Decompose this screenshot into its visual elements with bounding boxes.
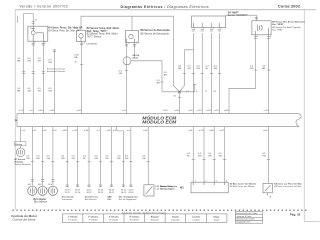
svg-text:a-58: a-58 [62, 130, 67, 132]
svg-text:Denominação dos Cabos: Denominação dos Cabos [236, 212, 257, 215]
pin labels B4 MAP [194, 28, 222, 30]
svg-text:Press.: Press. [30, 28, 36, 30]
label on a-46 wire [38, 58, 42, 63]
svg-text:BR: BR [17, 60, 20, 62]
oxygen sensor box [144, 185, 154, 196]
label at shield circle [132, 54, 140, 60]
wire: shield drain from circle to ground bus [131, 61, 162, 92]
mid connector ticks band [22, 65, 270, 74]
svg-text:BR: BR [164, 75, 167, 77]
label B1 rotation sensor [15, 159, 32, 166]
svg-text:GR: GR [142, 158, 146, 160]
wire: ECM a-3 page link [130, 127, 132, 187]
svg-text:GR: GR [119, 73, 123, 75]
wire: MAP pin1 jog lead into splice [180, 50, 185, 92]
svg-text:Blindag.: Blindag. [15, 144, 23, 146]
header title center: Diagramas Elétricos / Diagramas Eléctricos [121, 5, 210, 9]
dotted bottom frame line [13, 210, 307, 211]
svg-text:4º Cilindro: 4º Cilindro [130, 218, 140, 221]
svg-text:Denominación Cables: Denominación Cables [236, 219, 255, 221]
pin labels at M3 box [195, 180, 228, 182]
ticks on MAP wires [183, 72, 186, 74]
svg-text:a-44: a-44 [263, 130, 268, 132]
svg-text:Rotación: Rotación [151, 218, 160, 221]
labels on MAP wires [178, 65, 182, 70]
label B2 [74, 27, 119, 38]
wire: K4 supply loop (up from K4, left, down to ECM a-17) [24, 14, 34, 114]
svg-text:GR: GR [38, 60, 42, 62]
svg-text:a-46: a-46 [38, 110, 43, 112]
pin label under S box [269, 197, 272, 199]
svg-text:Rotação: Rotação [151, 215, 160, 218]
label on a-45 wire [48, 59, 52, 64]
svg-text:a-45: a-45 [49, 110, 54, 112]
connector X on B6 lead 1 [125, 44, 128, 46]
wire: ECM a-28 page link [110, 127, 112, 187]
sensor B1 rotation [16, 146, 25, 157]
label B4 [228, 12, 248, 18]
captions under page links [62, 195, 139, 200]
svg-text:S2 Bico Contr. Vel. Marcha: S2 Bico Contr. Vel. Marcha [230, 182, 257, 185]
tick on B6 wire [125, 70, 128, 72]
svg-text:a-42: a-42 [77, 110, 82, 112]
svg-text:40-15: 40-15 [121, 192, 127, 194]
svg-text:a-19: a-19 [214, 110, 219, 112]
svg-text:WS: WS [48, 62, 52, 64]
wire: ECM a-75 page link [77, 127, 79, 187]
pin labels below ECM banner [22, 130, 269, 132]
wire: K4 pin 30 to ECM a-46 [42, 41, 44, 114]
svg-text:GN: GN [105, 158, 109, 160]
pin labels B6 [128, 43, 138, 45]
tick on a-4 wire [32, 72, 35, 74]
svg-text:a-47: a-47 [219, 130, 224, 132]
svg-text:Pág. 33: Pág. 33 [290, 212, 301, 216]
svg-text:WS: WS [48, 91, 52, 93]
tick on drain wire [160, 82, 196, 97]
svg-text:WS: WS [61, 158, 65, 160]
tick on a-46 wire [42, 72, 45, 74]
injector Y3 [48, 186, 57, 195]
header rule [15, 9, 316, 11]
footer info box [235, 212, 262, 224]
svg-text:a-35: a-35 [197, 110, 202, 112]
svg-text:Sensores Diversos: Sensores Diversos [47, 70, 66, 73]
connector X on B5 pin 2 [267, 37, 270, 39]
footer: Sinais dos Circuitos header [122, 212, 167, 215]
connector ticks on wires below components [32, 29, 271, 51]
connector X on B2 wire [80, 43, 83, 45]
svg-text:Sensor “MAP/MAT”: Sensor “MAP/MAT” [228, 14, 248, 17]
connector X on MAP pin 3 [210, 29, 213, 31]
connector ticks above injectors [31, 180, 55, 182]
svg-text:34-12: 34-12 [86, 192, 92, 194]
svg-text:X30 Inter. Luz Freio Vel. Max.: X30 Inter. Luz Freio Vel. Max. [274, 182, 303, 185]
shield circle on knock sensor lead [123, 57, 131, 65]
label block Sensores Diversos [47, 67, 66, 73]
svg-text:BR: BR [74, 57, 77, 59]
svg-text:WS: WS [208, 156, 212, 158]
mid ticks below banner [31, 159, 270, 161]
connector on K4 supply wire [32, 22, 35, 24]
switch S box [263, 183, 272, 195]
wire: B4 MAP pin 1 branch [192, 50, 194, 114]
svg-text:WS: WS [196, 68, 200, 70]
wire: ECM a-66 to idle actuator [213, 127, 215, 183]
svg-text:B6 Sensor de Detonación: B6 Sensor de Detonación [141, 32, 170, 35]
connector X on B6 lead 2 [133, 44, 136, 46]
svg-text:B5 Sensor Rot. Árbol Cigüeñal: B5 Sensor Rot. Árbol Cigüeñal [272, 26, 301, 29]
page link reference labels [65, 190, 135, 194]
sensor B5 crankshaft [252, 21, 271, 35]
label M3 [180, 182, 257, 189]
wire: B4 MAP pin 2 to ECM a-35 [201, 33, 203, 114]
wire: shield drop to B6 box top [131, 16, 133, 30]
sensor B6 knock [126, 30, 139, 42]
wire: B4 MAP pin 1 jog [184, 33, 193, 50]
wire: ECM a-7 page link [100, 127, 102, 187]
svg-text:a-75: a-75 [73, 130, 78, 132]
wire: B4 MAP pin 4 to ECM a-19 [218, 33, 220, 114]
svg-text:ABS: ABS [106, 198, 112, 201]
footer signal table [62, 214, 227, 223]
svg-text:a-31: a-31 [264, 110, 269, 112]
svg-text:Corsa 2002: Corsa 2002 [278, 4, 301, 9]
svg-text:Comprim. 0.5 mm: Comprim. 0.5 mm [236, 215, 251, 218]
page link terminators [66, 185, 133, 187]
label left of M3 box [161, 185, 174, 191]
svg-text:Diagramas Elétricos / Diagrama: Diagramas Elétricos / Diagramas Eléctric… [121, 5, 210, 9]
pin 15 on K4 supply [35, 20, 38, 22]
svg-text:1º Cilindro: 1º Cilindro [68, 215, 79, 218]
label injectors [28, 184, 53, 203]
svg-text:“NTC” Sensor: “NTC” Sensor [87, 36, 102, 39]
sensor B2 temperature [77, 30, 86, 41]
svg-text:K4 Sens. Pres. Dir. Hidr. AP: K4 Sens. Pres. Dir. Hidr. AP [49, 30, 80, 33]
wire: ECM a-58 page link [66, 127, 68, 187]
wire: K4 pin 87 to ECM a-4 [32, 41, 34, 114]
svg-text:BR: BR [17, 91, 20, 93]
injector Y2 [38, 186, 47, 195]
label oxygen sensor [156, 185, 178, 191]
wire: ECM a-47 to idle actuator [224, 127, 226, 183]
wire: ECM a-2 jog page link [117, 127, 124, 187]
labels on B5 wires [250, 65, 254, 70]
svg-text:GN: GN [219, 156, 223, 158]
svg-text:Sensores Diversos: Sensores Diversos [47, 67, 66, 70]
svg-text:MASA: MASA [132, 57, 138, 60]
wire: ECM a-61 to idle actuator [192, 127, 194, 183]
label on B2 wire lower [74, 61, 77, 63]
label K4 [30, 27, 83, 33]
wire: ECM a-29 to injector 2 [42, 127, 44, 186]
wire: ECM a-44 to switch S [267, 127, 269, 184]
svg-text:Rot. “RPM”: Rot. “RPM” [272, 23, 283, 26]
svg-text:GN: GN [47, 158, 51, 160]
svg-text:Transmisión: Transmisión [62, 199, 74, 201]
label on splice output [174, 96, 177, 98]
frame bottom-right corner line [304, 220, 319, 222]
svg-text:a-20: a-20 [188, 110, 193, 112]
svg-text:38-11: 38-11 [109, 192, 115, 194]
svg-text:a-30: a-30 [163, 110, 168, 112]
connector X on K4 pin 30 wire [42, 43, 45, 45]
svg-text:BR: BR [157, 83, 160, 85]
svg-text:X30 Inter. Luz Freno Vel. Max.: X30 Inter. Luz Freno Vel. Max. [273, 185, 302, 188]
connector X on K4 pin 87 wire [32, 43, 35, 45]
wire: shield box lead into splice [173, 16, 179, 92]
connector on B5 top wire [255, 17, 258, 19]
wire: ground bus stub right [194, 84, 196, 92]
svg-text:GR: GR [72, 158, 76, 160]
wire: ECM a-26 page link [88, 127, 90, 187]
svg-text:a-28: a-28 [106, 130, 111, 132]
svg-text:42-16: 42-16 [128, 192, 134, 194]
svg-text:31-12: 31-12 [65, 192, 71, 194]
svg-text:a-27: a-27 [32, 130, 37, 132]
svg-text:M3: M3 [180, 186, 184, 189]
header title left: Versão / Versión 3007/02 [20, 5, 69, 9]
svg-text:Lambda: Lambda [192, 216, 201, 218]
svg-text:Lambda: Lambda [192, 219, 200, 221]
svg-text:Son Diversos: Son Diversos [85, 199, 97, 201]
wire: ECM a-9 to rotation sensor [20, 127, 22, 142]
svg-text:B5 Sensor Rot. Árvore Manivela: B5 Sensor Rot. Árvore Manivelas [272, 20, 306, 23]
svg-text:GR: GR [38, 91, 42, 93]
svg-text:Longitud 0.5 mm: Longitud 0.5 mm [236, 221, 251, 224]
svg-text:Sist. de Diagnóstico: Sist. de Diagnóstico [119, 198, 138, 201]
svg-text:S2 Bico Contr. Vel. Marcha: S2 Bico Contr. Vel. Marcha [230, 185, 256, 188]
ticks on B5 wires [254, 69, 257, 71]
label switch S [273, 182, 303, 188]
svg-text:Diagn.: Diagn. [214, 219, 220, 221]
label on B6 wire [119, 70, 123, 75]
svg-text:Marcha Lenta: Marcha Lenta [161, 187, 174, 190]
svg-text:BR: BR [178, 68, 181, 70]
svg-text:MÓDULO ECM: MÓDULO ECM [142, 119, 177, 126]
pin number labels [34, 20, 272, 46]
sensor B4 MAP box [192, 16, 226, 28]
tick on a-17 wire [22, 72, 25, 74]
connector X on B5 pin 1 [254, 37, 257, 39]
splice X node [178, 90, 181, 93]
svg-text:Inyección: Inyección [171, 219, 180, 221]
svg-text:Rot. “RPM”: Rot. “RPM” [272, 29, 283, 32]
footer page number [290, 212, 301, 216]
footer: Controle do Motor [11, 214, 38, 221]
wire: supply bus stub at frame [17, 16, 19, 23]
svg-text:a-64: a-64 [143, 130, 148, 132]
svg-text:Bico Injetor: Bico Injetor [34, 198, 47, 201]
footer table cell texts [68, 215, 220, 221]
pin labels above ECM banner [19, 110, 269, 112]
svg-text:1º Cilindro: 1º Cilindro [68, 218, 78, 221]
svg-text:B4 “MAP”: B4 “MAP” [228, 12, 239, 15]
injector Y1 [28, 186, 37, 195]
svg-text:4 LB: 4 LB [74, 28, 79, 30]
svg-text:3º Cilindro: 3º Cilindro [109, 215, 120, 218]
svg-text:a-49: a-49 [224, 110, 229, 112]
wire: ECM a-64 to oxygen sensor box [147, 127, 149, 185]
connector X on MAP pin 2 [201, 29, 204, 31]
svg-text:a-13: a-13 [199, 130, 204, 132]
svg-text:BR: BR [37, 158, 40, 160]
frame right border [303, 10, 305, 222]
pin labels B5 [257, 35, 272, 37]
svg-text:a-26: a-26 [84, 130, 89, 132]
svg-text:a-56: a-56 [174, 110, 179, 112]
connector X on MAP pin 1 [192, 29, 195, 31]
tick on B2 wire [80, 64, 83, 66]
label on drain wire [157, 72, 168, 85]
svg-text:0.35 BR/WS: 0.35 BR/WS [86, 43, 98, 45]
wire: ECM a-10 to injector 3 [52, 127, 54, 186]
connector X on MAP pin 4 [218, 29, 221, 31]
wire colour labels upper band [17, 55, 266, 85]
svg-text:31-14: 31-14 [75, 192, 81, 194]
wire: B5 pin 1 jog to ECM a-49 [229, 35, 256, 114]
wire: splice output to ECM a-30 [179, 92, 181, 114]
svg-text:GN: GN [187, 68, 191, 70]
svg-text:a-17: a-17 [19, 110, 24, 112]
svg-text:a-34: a-34 [206, 110, 211, 112]
wire: ECM a-27 to injector 1 [31, 127, 33, 186]
pin labels K4 [34, 42, 46, 44]
svg-text:a-66: a-66 [209, 130, 214, 132]
svg-text:Sensor Rotación: Sensor Rotación [15, 163, 32, 166]
label B5 [272, 20, 306, 31]
wire: ground bus horizontal [162, 91, 195, 93]
wire: sensor return to ECM a-45 [54, 49, 56, 113]
wire: B4 MAP box to B5 sensor link [226, 15, 257, 21]
label on a-17 wire [17, 58, 21, 63]
svg-text:Bico Inyector: Bico Inyector [34, 201, 48, 204]
label B6 [141, 29, 171, 35]
svg-text:2º Cilindro: 2º Cilindro [88, 215, 99, 218]
svg-text:WS: WS [125, 158, 129, 160]
wire: B2/B6 shield rail (horizontal y16.2) [81, 16, 173, 30]
wire: B5 pin 2 to ECM a-31 [268, 35, 270, 114]
wire labels below banner band [26, 153, 267, 160]
wire: ECM a-13 to idle actuator [203, 127, 205, 183]
svg-text:BR: BR [262, 68, 265, 70]
shield label box on a-9 wire [15, 142, 26, 146]
svg-text:4º Cilindro: 4º Cilindro [129, 215, 140, 218]
svg-text:2º Cilindro: 2º Cilindro [88, 218, 99, 221]
pin label B2 [84, 42, 98, 45]
svg-text:3º Cilindro: 3º Cilindro [109, 218, 119, 221]
svg-text:Injeção: Injeção [172, 215, 180, 218]
svg-text:Control del Motor: Control del Motor [13, 218, 37, 222]
idle actuator box M3 [191, 182, 228, 193]
label on a-4 wire [27, 58, 31, 63]
wire: B6 second lead [134, 43, 136, 57]
svg-text:a-61: a-61 [188, 130, 193, 132]
svg-text:Versão / Versión 3007/02: Versão / Versión 3007/02 [20, 5, 69, 9]
connector X on sensor return wire [53, 50, 56, 52]
frame left border [14, 10, 16, 210]
wire colour labels lower band [17, 88, 216, 93]
wire: B4 MAP pin 3 to ECM a-34 [210, 33, 212, 114]
relay K4 [28, 26, 48, 41]
svg-text:36-13: 36-13 [98, 192, 104, 194]
wire: B6 signal through shield splice to ECM a-11 [126, 43, 128, 114]
header title right: Corsa 2002 [278, 4, 301, 9]
module ECM banner [15, 114, 301, 127]
wire: B2 signal to ECM a-42 [81, 42, 83, 114]
label on B2 wire [74, 55, 79, 60]
svg-text:BR: BR [117, 158, 120, 160]
svg-text:Diagn.: Diagn. [214, 216, 221, 218]
